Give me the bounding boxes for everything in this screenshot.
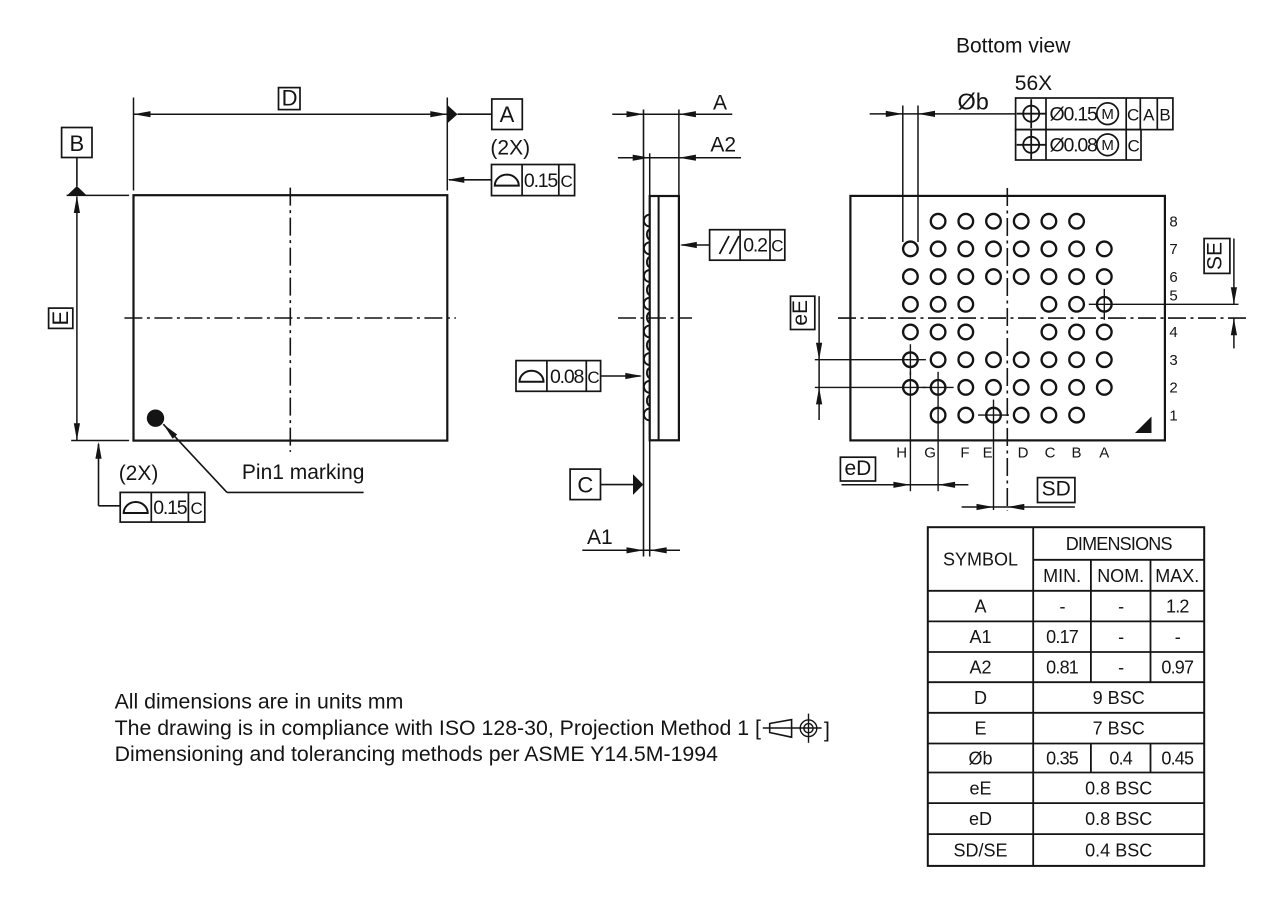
svg-text:A2: A2 bbox=[710, 134, 736, 157]
svg-text:8: 8 bbox=[1169, 213, 1177, 230]
datum C symbol bbox=[570, 469, 643, 500]
svg-text:A2: A2 bbox=[969, 658, 991, 678]
note line 2 bbox=[115, 716, 761, 740]
D left extension line bbox=[133, 98, 135, 191]
svg-text:(2X): (2X) bbox=[490, 137, 530, 160]
target ball E1 cross bbox=[978, 400, 1009, 510]
svg-text:eD: eD bbox=[844, 457, 871, 480]
profile tolerance frame bottom left bbox=[95, 442, 204, 522]
svg-text:C: C bbox=[1127, 137, 1139, 156]
svg-text:C: C bbox=[587, 368, 599, 387]
side view centerline bbox=[618, 317, 692, 319]
svg-text:0.97: 0.97 bbox=[1161, 658, 1194, 678]
note line 1 bbox=[115, 690, 404, 714]
dimension SE bbox=[1231, 239, 1237, 349]
svg-text:C: C bbox=[577, 472, 593, 497]
svg-text:0.4 BSC: 0.4 BSC bbox=[1085, 841, 1152, 861]
(2X) note bottom left bbox=[119, 462, 159, 485]
svg-text:A: A bbox=[1143, 106, 1155, 125]
svg-text:D: D bbox=[974, 688, 987, 708]
svg-text:0.8 BSC: 0.8 BSC bbox=[1085, 809, 1152, 829]
dimension D bbox=[134, 86, 448, 118]
projection method symbol bbox=[763, 714, 830, 743]
pin1 leader line bbox=[163, 424, 363, 492]
svg-text:C: C bbox=[1127, 106, 1139, 125]
svg-text:0.4: 0.4 bbox=[1109, 749, 1132, 769]
svg-text:Dimensioning and tolerancing m: Dimensioning and tolerancing methods per… bbox=[115, 742, 719, 766]
side view solder ball arcs bbox=[644, 215, 650, 421]
(2X) note top right bbox=[490, 137, 530, 160]
svg-text:A1: A1 bbox=[969, 627, 991, 647]
dimension eE bbox=[816, 296, 822, 420]
svg-text:E: E bbox=[983, 444, 993, 461]
svg-text:A: A bbox=[713, 92, 727, 115]
bottom view package outline bbox=[850, 196, 1165, 441]
svg-text:B: B bbox=[1071, 444, 1081, 461]
A1 extension line bbox=[649, 440, 651, 556]
svg-text:MIN.: MIN. bbox=[1043, 566, 1081, 586]
parallelism tolerance frame bbox=[680, 230, 785, 261]
svg-text:-: - bbox=[1118, 627, 1124, 647]
svg-text:E: E bbox=[974, 719, 986, 739]
dimension E bbox=[48, 196, 80, 440]
svg-text:1.2: 1.2 bbox=[1166, 597, 1189, 617]
pin1 marking text bbox=[242, 461, 365, 484]
svg-text:0.17: 0.17 bbox=[1046, 627, 1079, 647]
svg-text:3: 3 bbox=[1169, 352, 1177, 369]
dimension Øb bbox=[870, 88, 1016, 117]
top view package outline bbox=[134, 195, 448, 440]
svg-text:-: - bbox=[1175, 627, 1181, 647]
ball column labels bbox=[896, 444, 1109, 461]
svg-text:A1: A1 bbox=[587, 526, 613, 549]
A1 corner chamfer mark bbox=[1135, 417, 1152, 434]
profile tolerance frame top right bbox=[447, 165, 574, 196]
svg-text:56X: 56X bbox=[1015, 72, 1052, 95]
svg-text:M: M bbox=[1101, 137, 1114, 154]
svg-text:H: H bbox=[896, 444, 907, 461]
svg-text:Ø0.15: Ø0.15 bbox=[1050, 104, 1098, 126]
SE label bbox=[1204, 239, 1230, 274]
svg-text:SD/SE: SD/SE bbox=[953, 841, 1007, 861]
A2 extension line bbox=[649, 153, 651, 196]
bottom view vertical centerline bbox=[1006, 188, 1008, 511]
svg-text:A: A bbox=[1099, 444, 1109, 461]
56X note bbox=[1015, 72, 1052, 95]
svg-text:Øb: Øb bbox=[968, 749, 992, 769]
target ball H2 cross bbox=[815, 372, 926, 491]
dimension A2 bbox=[618, 134, 741, 161]
position tolerance frame 2 bbox=[1016, 130, 1141, 160]
svg-text:The drawing is in compliance w: The drawing is in compliance with ISO 12… bbox=[115, 716, 761, 740]
svg-text:-: - bbox=[1118, 658, 1124, 678]
svg-text:0.8 BSC: 0.8 BSC bbox=[1085, 778, 1152, 798]
svg-text:0.45: 0.45 bbox=[1161, 749, 1194, 769]
svg-text:NOM.: NOM. bbox=[1097, 566, 1144, 586]
A right extension line bbox=[678, 110, 680, 197]
eD label bbox=[840, 457, 875, 481]
svg-text:2: 2 bbox=[1169, 380, 1177, 397]
svg-text:D: D bbox=[282, 86, 298, 111]
svg-text:B: B bbox=[69, 131, 84, 156]
svg-text:(2X): (2X) bbox=[119, 462, 159, 485]
side view seating plane line bbox=[643, 110, 645, 557]
svg-text:0.81: 0.81 bbox=[1046, 658, 1079, 678]
svg-text:B: B bbox=[1159, 106, 1170, 125]
svg-text:C: C bbox=[771, 237, 783, 256]
svg-text:Ø0.08: Ø0.08 bbox=[1050, 135, 1097, 157]
svg-text:-: - bbox=[1118, 597, 1124, 617]
Øb extension lines bbox=[903, 106, 918, 243]
E top extension line bbox=[67, 194, 130, 196]
svg-text:9 BSC: 9 BSC bbox=[1093, 688, 1145, 708]
svg-text:E: E bbox=[48, 311, 73, 326]
svg-text:-: - bbox=[1059, 597, 1065, 617]
svg-text:0.15: 0.15 bbox=[153, 497, 188, 519]
position tolerance frame 1 bbox=[1016, 98, 1173, 130]
svg-text:C: C bbox=[561, 172, 573, 191]
D right extension line bbox=[446, 98, 448, 191]
top view vertical centerline bbox=[289, 188, 291, 452]
svg-text:C: C bbox=[190, 499, 202, 518]
dimension A bbox=[612, 92, 732, 118]
svg-text:5: 5 bbox=[1169, 288, 1177, 305]
svg-text:F: F bbox=[960, 444, 969, 461]
svg-text:SE: SE bbox=[1204, 242, 1227, 270]
pin1 marking dot bbox=[147, 410, 164, 427]
dimension A1 bbox=[582, 526, 680, 554]
svg-text:0.08: 0.08 bbox=[550, 366, 584, 388]
svg-text:6: 6 bbox=[1169, 269, 1177, 286]
svg-text:Pin1 marking: Pin1 marking bbox=[242, 461, 365, 484]
SD label bbox=[1038, 478, 1075, 503]
datum A symbol bbox=[447, 99, 522, 130]
svg-text:M: M bbox=[1101, 106, 1114, 123]
svg-text:7: 7 bbox=[1169, 241, 1177, 258]
side view package body bbox=[650, 196, 679, 440]
svg-text:eE: eE bbox=[789, 300, 812, 326]
solder ball grid bbox=[903, 214, 1111, 423]
svg-text:SD: SD bbox=[1042, 478, 1071, 501]
svg-text:]: ] bbox=[824, 718, 830, 742]
E bottom extension line bbox=[71, 440, 129, 442]
svg-text:SYMBOL: SYMBOL bbox=[943, 550, 1018, 570]
svg-text:DIMENSIONS: DIMENSIONS bbox=[1066, 534, 1173, 554]
target ball H3 cross bbox=[815, 344, 926, 375]
svg-text:0.2: 0.2 bbox=[743, 235, 767, 257]
dimension SD bbox=[962, 504, 1075, 510]
svg-text:MAX.: MAX. bbox=[1155, 566, 1199, 586]
note line 3 bbox=[115, 742, 719, 766]
svg-text:C: C bbox=[1045, 444, 1056, 461]
ball row labels bbox=[1169, 213, 1177, 424]
datum B symbol bbox=[62, 128, 92, 197]
svg-text:0.35: 0.35 bbox=[1046, 749, 1079, 769]
svg-text:4: 4 bbox=[1169, 324, 1177, 341]
svg-text:All dimensions are in units mm: All dimensions are in units mm bbox=[115, 690, 404, 714]
svg-text:7 BSC: 7 BSC bbox=[1093, 719, 1145, 739]
svg-text:Øb: Øb bbox=[958, 88, 989, 114]
svg-text:Bottom view: Bottom view bbox=[956, 35, 1071, 58]
profile tolerance frame 0.08 bbox=[516, 361, 642, 392]
eE label bbox=[789, 296, 815, 329]
top view horizontal centerline bbox=[124, 317, 456, 319]
svg-text:D: D bbox=[1018, 444, 1029, 461]
bottom view horizontal centerline bbox=[838, 317, 1250, 319]
svg-text:1: 1 bbox=[1169, 407, 1177, 424]
dimensions table bbox=[928, 527, 1204, 866]
svg-text:A: A bbox=[500, 102, 515, 127]
svg-text:A: A bbox=[974, 597, 986, 617]
svg-text:0.15: 0.15 bbox=[524, 170, 559, 192]
svg-text:eE: eE bbox=[969, 778, 991, 798]
svg-text:G: G bbox=[924, 444, 936, 461]
target ball G2 cross bbox=[923, 372, 954, 491]
dimension eD bbox=[842, 482, 969, 488]
svg-text:eD: eD bbox=[969, 809, 992, 829]
target ball A5 cross bbox=[1089, 289, 1239, 320]
bottom view title bbox=[956, 35, 1071, 58]
